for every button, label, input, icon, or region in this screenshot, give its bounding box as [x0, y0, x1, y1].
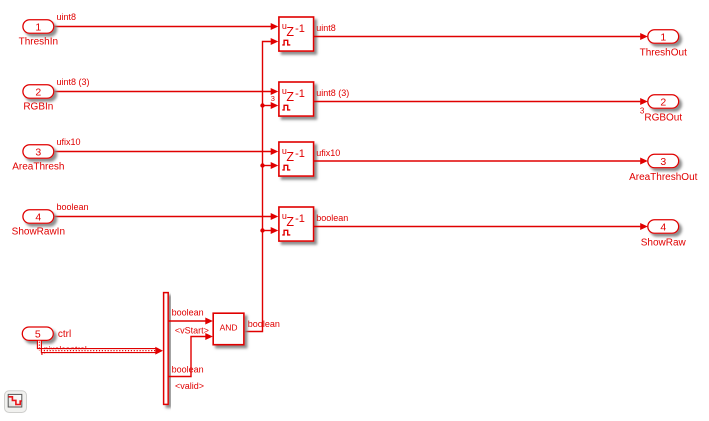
svg-text:ThreshOut: ThreshOut	[640, 48, 687, 59]
svg-text:Z: Z	[286, 215, 294, 229]
svg-text:ufix10: ufix10	[316, 148, 340, 158]
svg-text:boolean: boolean	[57, 202, 89, 212]
svg-text:3: 3	[640, 106, 645, 115]
svg-text:boolean: boolean	[172, 364, 204, 374]
svg-text:1: 1	[35, 21, 41, 33]
svg-text:AreaThresh: AreaThresh	[12, 162, 64, 173]
svg-text:Z: Z	[286, 150, 294, 164]
svg-text:3: 3	[35, 146, 41, 158]
svg-text:1: 1	[660, 31, 666, 43]
svg-text:boolean: boolean	[248, 319, 280, 329]
svg-text:uint8 (3): uint8 (3)	[316, 88, 349, 98]
svg-text:RGBOut: RGBOut	[644, 113, 682, 124]
svg-text:3: 3	[660, 156, 666, 168]
svg-text:-1: -1	[295, 148, 305, 160]
svg-text:3: 3	[271, 94, 275, 103]
svg-text:ctrl: ctrl	[58, 329, 71, 340]
svg-text:-1: -1	[295, 23, 305, 35]
svg-text:-1: -1	[295, 88, 305, 100]
svg-text:ufix10: ufix10	[57, 137, 81, 147]
svg-text:uint8: uint8	[316, 23, 336, 33]
svg-text:boolean: boolean	[172, 307, 204, 317]
svg-text:<vStart>: <vStart>	[175, 326, 209, 336]
svg-text:2: 2	[35, 86, 41, 98]
svg-text:AND: AND	[220, 323, 238, 333]
svg-text:4: 4	[660, 221, 666, 233]
svg-text:4: 4	[35, 211, 41, 223]
svg-text:ShowRawIn: ShowRawIn	[12, 227, 65, 238]
svg-text:Z: Z	[286, 25, 294, 39]
svg-text:<valid>: <valid>	[175, 381, 204, 391]
svg-text:boolean: boolean	[316, 213, 348, 223]
svg-text:ThreshIn: ThreshIn	[19, 37, 58, 48]
svg-text:5: 5	[35, 329, 41, 341]
svg-text:RGBIn: RGBIn	[23, 102, 53, 113]
svg-text:uint8 (3): uint8 (3)	[57, 77, 90, 87]
svg-text:Z: Z	[286, 90, 294, 104]
svg-text:AreaThreshOut: AreaThreshOut	[629, 172, 698, 183]
svg-text:-1: -1	[295, 213, 305, 225]
svg-text:uint8: uint8	[57, 12, 77, 22]
svg-text:ShowRaw: ShowRaw	[641, 238, 687, 249]
svg-text:2: 2	[660, 96, 666, 108]
